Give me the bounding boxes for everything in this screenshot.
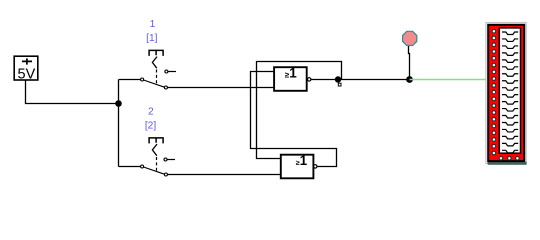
svg-text:1: 1	[150, 19, 156, 30]
display U3 bargraph	[486, 23, 527, 165]
wire node Q to display (green)	[410, 79, 487, 81]
svg-text:[2]: [2]	[145, 121, 156, 132]
wire feedback Q to U2 input A	[257, 62, 342, 159]
wire node A to switch J2	[119, 166, 141, 168]
junction node Q tap	[335, 76, 341, 82]
NOR gate U2	[281, 153, 317, 179]
wire node A to switch J1	[119, 79, 141, 81]
switch J1	[141, 70, 176, 89]
switch J2	[141, 158, 175, 176]
svg-text:5V: 5V	[18, 66, 36, 82]
display U3 left pins	[492, 29, 496, 154]
wire J2 to U2 input B	[167, 174, 280, 176]
voltage source V1	[14, 56, 38, 80]
probe X1	[403, 31, 417, 45]
wire vertical bus node A	[118, 80, 120, 167]
display U3 bottom pins	[499, 157, 519, 161]
connector square	[338, 83, 341, 86]
display U3 waveform rows	[502, 32, 518, 153]
svg-text:[1]: [1]	[146, 33, 157, 44]
wire feedback U2 output to U1 input A	[251, 72, 337, 167]
svg-text:2: 2	[148, 106, 154, 117]
wire U1 output to node Q	[311, 79, 410, 81]
NOR gate U1	[274, 66, 311, 91]
junction node A	[115, 100, 122, 107]
junction node Q probe tap	[406, 76, 413, 83]
wire J1 to U1 input B	[167, 87, 274, 89]
key symbol for J2	[149, 138, 163, 171]
wire V1 to node A	[26, 80, 119, 104]
wire probe stem	[409, 46, 410, 80]
key symbol for J1	[149, 50, 163, 84]
